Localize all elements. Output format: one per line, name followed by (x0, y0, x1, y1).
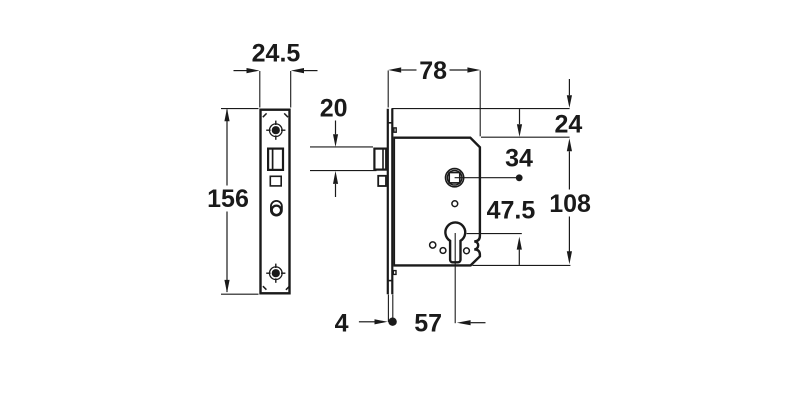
svg-text:57: 57 (414, 310, 442, 338)
svg-text:47.5: 47.5 (487, 196, 536, 224)
latch bolt side view (374, 149, 386, 170)
dimension 108 (473, 138, 592, 265)
lock case outline side view (393, 138, 480, 266)
faceplate side view front line (387, 109, 389, 295)
top screw hole front view (266, 121, 285, 140)
dimension 57 (414, 310, 485, 338)
small hole below hub (452, 201, 458, 207)
dimension 34 leader (455, 145, 533, 182)
svg-text:108: 108 (549, 190, 591, 218)
svg-text:4: 4 (335, 310, 349, 338)
faceplate joint tick lower (388, 280, 394, 282)
fixing hole right (464, 248, 470, 254)
lock case left edge (393, 138, 395, 266)
cylinder centerline (454, 233, 456, 323)
dimension 24 (392, 79, 583, 138)
auxiliary square hole front view (270, 176, 281, 186)
faceplate corner mark bottom-right (286, 286, 290, 290)
fixing hole left lower (440, 248, 446, 254)
cylinder oval front view (271, 201, 282, 216)
bottom screw hole front view (266, 264, 285, 283)
lower stop lug side view (393, 271, 396, 275)
svg-text:78: 78 (419, 57, 447, 85)
faceplate corner mark top-right (284, 113, 288, 117)
euro profile cylinder hole (445, 222, 465, 262)
faceplate corner mark bottom-left (263, 286, 267, 290)
faceplate side view back line (391, 109, 393, 295)
faceplate joint tick upper (388, 122, 394, 124)
svg-text:24: 24 (554, 110, 582, 138)
upper stop lug side view (394, 128, 396, 132)
latch bolt front view (268, 149, 283, 170)
svg-text:24.5: 24.5 (252, 39, 301, 67)
faceplate front view outline (261, 110, 290, 294)
dimension 20 (310, 94, 377, 197)
faceplate corner mark top-left (263, 113, 267, 117)
dimension 4 (335, 295, 397, 338)
svg-text:20: 20 (320, 94, 348, 122)
dimension 24.5 (234, 39, 318, 107)
dimension 78 (388, 57, 480, 137)
dimension 156 (207, 108, 258, 294)
svg-text:34: 34 (505, 145, 533, 173)
auxiliary bolt square side view (378, 176, 386, 186)
spindle hub (446, 169, 464, 187)
dimension 47.5 (467, 196, 536, 265)
fixing hole left upper (430, 242, 436, 248)
svg-text:156: 156 (207, 185, 249, 213)
